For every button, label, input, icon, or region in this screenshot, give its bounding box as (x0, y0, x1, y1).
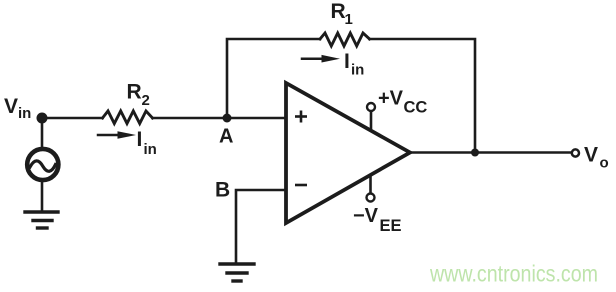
svg-text:www.cntronics.com: www.cntronics.com (429, 261, 598, 287)
svg-text:o: o (600, 155, 609, 172)
svg-text:CC: CC (404, 99, 428, 117)
svg-text:in: in (18, 105, 31, 122)
svg-text:EE: EE (380, 217, 402, 235)
svg-text:R: R (127, 80, 142, 103)
svg-text:V: V (584, 144, 598, 167)
svg-text:R: R (331, 0, 346, 23)
svg-text:2: 2 (142, 92, 150, 109)
svg-text:1: 1 (345, 11, 353, 28)
svg-text:in: in (144, 141, 157, 158)
svg-text:+V: +V (378, 88, 404, 110)
svg-text:I: I (137, 128, 143, 151)
svg-text:A: A (219, 126, 233, 148)
svg-text:V: V (4, 95, 18, 118)
svg-text:−V: −V (353, 205, 379, 227)
svg-text:I: I (344, 50, 350, 73)
svg-text:in: in (351, 62, 364, 79)
svg-text:B: B (215, 179, 230, 202)
